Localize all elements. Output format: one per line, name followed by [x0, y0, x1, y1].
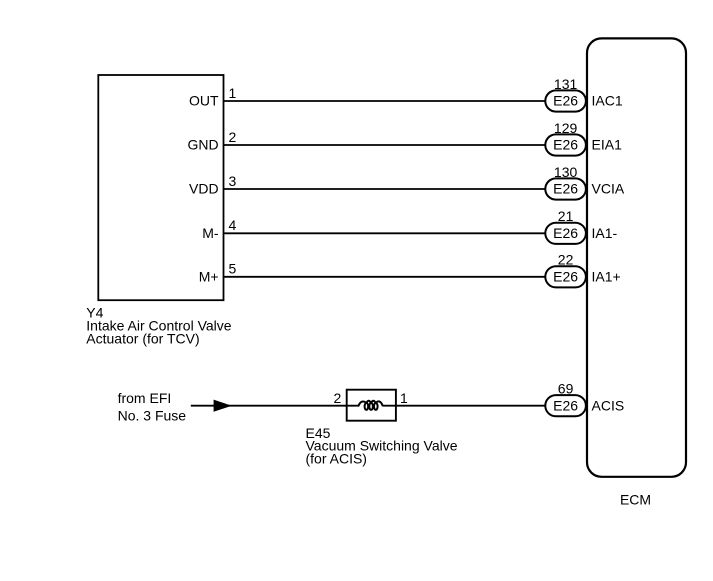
svg-text:IA1+: IA1+: [592, 269, 621, 285]
svg-text:GND: GND: [187, 137, 218, 153]
svg-text:4: 4: [229, 217, 237, 233]
svg-text:M-: M-: [202, 225, 219, 241]
svg-text:E26: E26: [553, 269, 578, 285]
svg-text:1: 1: [229, 85, 237, 101]
svg-text:1: 1: [400, 390, 408, 406]
svg-text:E26: E26: [553, 225, 578, 241]
svg-text:Actuator (for TCV): Actuator (for TCV): [86, 330, 199, 346]
svg-text:21: 21: [558, 208, 574, 224]
svg-text:3: 3: [229, 173, 237, 189]
svg-text:22: 22: [558, 252, 574, 268]
svg-text:EIA1: EIA1: [592, 137, 623, 153]
svg-text:2: 2: [334, 390, 342, 406]
svg-text:M+: M+: [199, 269, 219, 285]
svg-text:69: 69: [558, 381, 574, 397]
svg-text:131: 131: [554, 76, 578, 92]
svg-text:from EFI: from EFI: [118, 390, 172, 406]
svg-text:(for ACIS): (for ACIS): [306, 450, 367, 466]
svg-text:E26: E26: [553, 93, 578, 109]
svg-text:E26: E26: [553, 137, 578, 153]
svg-text:OUT: OUT: [189, 93, 219, 109]
svg-text:2: 2: [229, 129, 237, 145]
svg-text:IAC1: IAC1: [592, 93, 623, 109]
svg-text:No. 3 Fuse: No. 3 Fuse: [118, 408, 187, 424]
svg-text:VCIA: VCIA: [592, 181, 625, 197]
svg-text:E26: E26: [553, 397, 578, 413]
svg-text:E26: E26: [553, 181, 578, 197]
svg-text:IA1-: IA1-: [592, 225, 618, 241]
svg-text:5: 5: [229, 261, 237, 277]
svg-text:ECM: ECM: [620, 492, 651, 508]
svg-text:ACIS: ACIS: [592, 397, 625, 413]
svg-text:130: 130: [554, 164, 578, 180]
svg-text:129: 129: [554, 120, 578, 136]
svg-text:VDD: VDD: [189, 181, 219, 197]
